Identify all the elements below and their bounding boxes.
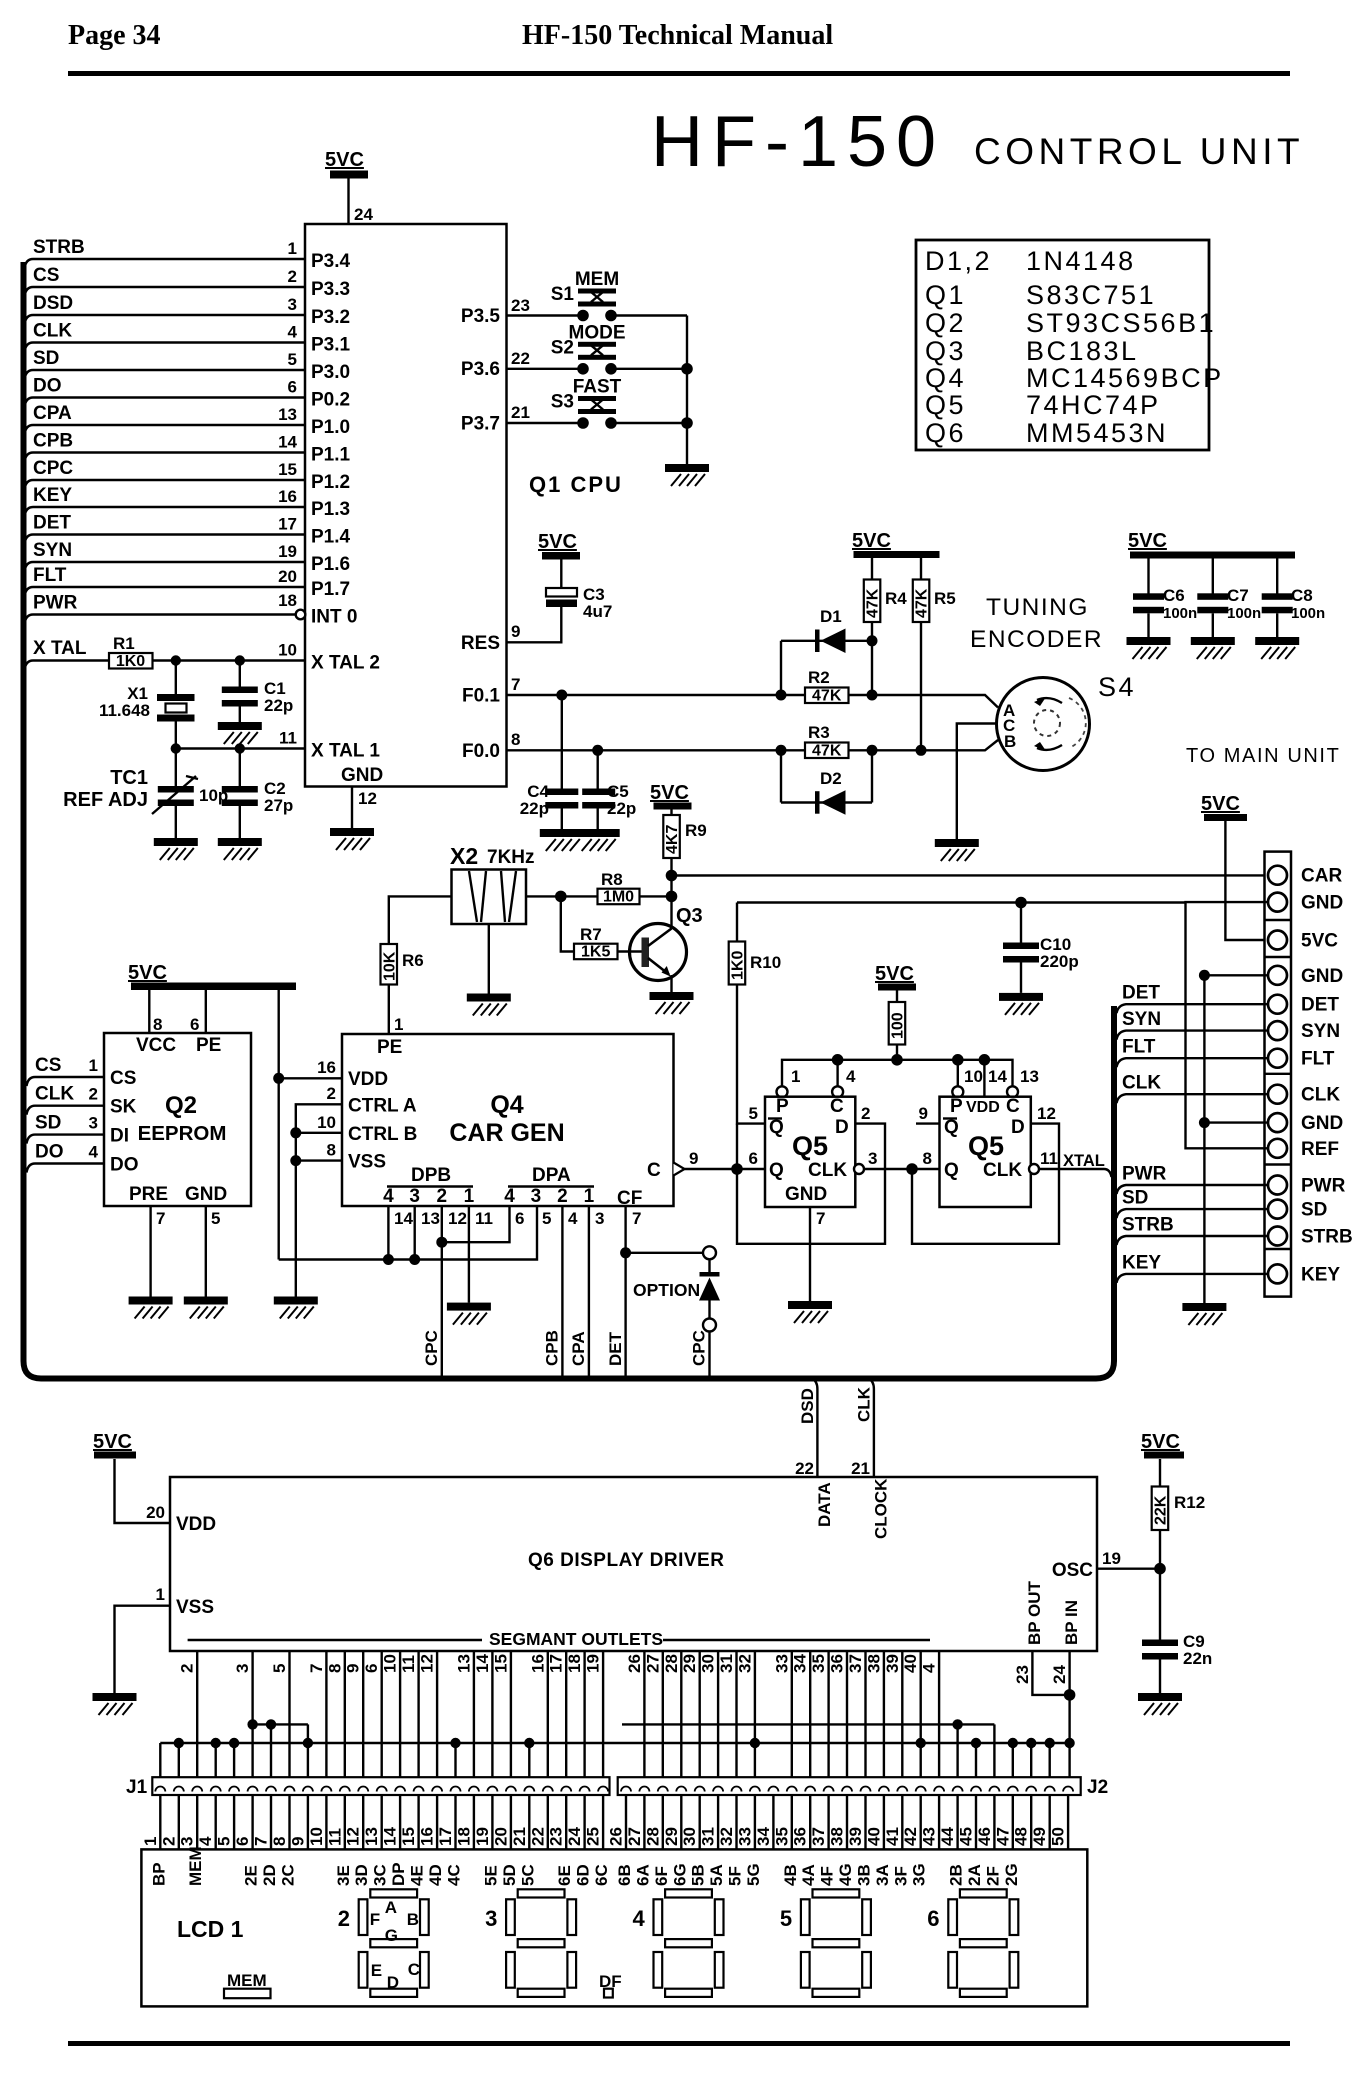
connector pin STRB [1268, 1227, 1287, 1246]
svg-text:GND: GND [341, 765, 383, 786]
svg-text:CLK: CLK [808, 1160, 847, 1181]
svg-text:4A: 4A [799, 1864, 818, 1886]
svg-text:Q4: Q4 [490, 1091, 523, 1119]
svg-text:26: 26 [625, 1654, 644, 1673]
svg-text:Q2: Q2 [925, 308, 966, 338]
svg-text:5: 5 [542, 1209, 551, 1228]
svg-text:P1.0: P1.0 [311, 417, 350, 438]
wire CPA [25, 425, 306, 434]
power symbol 5VC (Q5 rail via 100R) [875, 963, 916, 991]
ground (Q6 VSS) [93, 1693, 137, 1715]
svg-text:3: 3 [409, 1186, 420, 1207]
svg-text:S3: S3 [551, 392, 574, 413]
svg-text:30: 30 [680, 1827, 699, 1846]
svg-text:CPC: CPC [422, 1330, 441, 1366]
junction rail/pin4 [832, 1054, 844, 1066]
svg-text:VDD: VDD [348, 1069, 388, 1090]
capacitor C9 22n [1142, 1632, 1212, 1668]
svg-text:C: C [647, 1160, 661, 1181]
svg-text:38: 38 [828, 1827, 847, 1846]
wire pin12 to pin6 link [442, 1206, 510, 1242]
svg-text:20: 20 [278, 567, 297, 586]
svg-text:P0.2: P0.2 [311, 390, 350, 411]
svg-text:22: 22 [795, 1459, 814, 1478]
capacitor C1 22p [222, 679, 293, 715]
connector pin CAR [1268, 866, 1287, 885]
flip-flop Q5b 74HC74P [940, 1096, 1031, 1207]
svg-text:10: 10 [964, 1067, 983, 1086]
svg-text:100n: 100n [1227, 605, 1261, 622]
Q2 left signal labels [35, 1055, 74, 1163]
wire BP OUT pin 23 [1032, 1651, 1069, 1695]
svg-text:7: 7 [632, 1209, 641, 1228]
wire KEY from cable bus to connector [1117, 1274, 1268, 1283]
svg-text:2: 2 [159, 1837, 178, 1846]
svg-text:FLT: FLT [1122, 1037, 1156, 1058]
wire Q6 VSS pin 1 to ground [115, 1606, 171, 1693]
svg-text:P: P [776, 1096, 789, 1117]
connector J1 [126, 1777, 610, 1798]
CPU right pin numbers [511, 296, 530, 749]
svg-text:7: 7 [156, 1209, 165, 1228]
svg-text:1N4148: 1N4148 [1026, 246, 1136, 276]
svg-text:1: 1 [288, 239, 297, 258]
junction link bus [971, 1738, 981, 1748]
junction link bus [1045, 1738, 1055, 1748]
svg-text:11.648: 11.648 [99, 701, 150, 720]
svg-text:P1.6: P1.6 [311, 554, 350, 575]
svg-text:9: 9 [919, 1104, 928, 1123]
junction VSS [290, 1155, 301, 1166]
svg-text:TC1: TC1 [110, 767, 148, 789]
svg-text:41: 41 [883, 1827, 902, 1846]
ground (C9) [1138, 1693, 1182, 1715]
junction link bus [1008, 1738, 1018, 1748]
svg-text:17: 17 [436, 1827, 455, 1846]
wire R100 to Q5 supply rail [896, 1045, 898, 1060]
junction rail/pin10 [952, 1054, 964, 1066]
svg-text:22: 22 [528, 1827, 547, 1846]
connector pin GND [1268, 1113, 1287, 1132]
wire R4 to D1/R2 node [871, 622, 873, 695]
svg-text:5: 5 [211, 1209, 220, 1228]
svg-text:26: 26 [607, 1827, 626, 1846]
svg-text:4E: 4E [408, 1865, 427, 1886]
svg-text:29: 29 [680, 1654, 699, 1673]
svg-text:P: P [950, 1096, 963, 1117]
svg-text:43: 43 [920, 1827, 939, 1846]
svg-text:SYN: SYN [1122, 1009, 1161, 1030]
junction D1/F0.1 [776, 690, 787, 701]
svg-text:CS: CS [35, 1055, 61, 1076]
wire Q6 pin 10 to J pin 14 [399, 1651, 401, 1777]
LCD digit 6 seven-segment [927, 1889, 1018, 1997]
resistor R1 1K0 [109, 634, 153, 670]
svg-text:Q5: Q5 [968, 1131, 1004, 1161]
wire TC1 to ground [175, 806, 177, 838]
svg-text:SD: SD [35, 1113, 61, 1134]
junction D1/R4 [867, 635, 878, 646]
svg-text:REF: REF [1301, 1139, 1339, 1160]
LCD digit 4 seven-segment [633, 1889, 724, 1997]
wire X2 bottom to ground [488, 924, 490, 994]
wire CLK [25, 343, 306, 352]
wire OPTION to border / CPC [708, 1332, 710, 1379]
connector pin KEY [1268, 1264, 1287, 1283]
wire C10 to ground [1020, 963, 1022, 993]
svg-text:6F: 6F [652, 1866, 671, 1886]
svg-text:R5: R5 [934, 589, 956, 608]
svg-text:P3.4: P3.4 [311, 251, 351, 272]
wire Q6 pin 17 to J pin 23 [565, 1651, 567, 1777]
svg-text:38: 38 [864, 1654, 883, 1673]
svg-text:Q6: Q6 [925, 418, 966, 448]
svg-text:11: 11 [475, 1209, 493, 1228]
ground (C2) [218, 838, 262, 860]
svg-text:7: 7 [816, 1209, 825, 1228]
connector pin GND [1268, 893, 1287, 912]
svg-text:1K0: 1K0 [730, 951, 747, 980]
junction R9/CAR [666, 870, 678, 882]
svg-text:P3.6: P3.6 [461, 359, 500, 380]
svg-text:22p: 22p [607, 799, 636, 818]
svg-text:10: 10 [381, 1654, 400, 1673]
wire DPB2 pin 12 / CPC [441, 1206, 443, 1378]
op-amp: CPU block Q1 (S83C751) [305, 224, 507, 787]
svg-text:DET: DET [1301, 995, 1339, 1016]
svg-text:D2: D2 [820, 769, 842, 788]
wire Q6 pin 27 to J pin 28 [662, 1651, 664, 1777]
connector pin CLK [1268, 1085, 1287, 1104]
svg-text:DSD: DSD [33, 293, 73, 314]
wire stub to J pin 7 [270, 1724, 272, 1777]
svg-text:X TAL: X TAL [33, 638, 87, 659]
pin 1 circle [777, 1086, 788, 1097]
svg-text:13: 13 [454, 1654, 473, 1673]
svg-text:6: 6 [515, 1209, 524, 1228]
svg-text:3D: 3D [352, 1864, 371, 1886]
connector pin SD [1268, 1200, 1287, 1219]
wire P3.6 to S2 [507, 368, 584, 370]
svg-text:10K: 10K [381, 951, 398, 981]
junction R4 leg/F0.1 [867, 690, 878, 701]
wire SYN [25, 562, 306, 571]
wire 5VC to C8 [1276, 559, 1278, 594]
svg-text:45: 45 [957, 1827, 976, 1846]
svg-text:5: 5 [270, 1664, 289, 1673]
svg-text:8: 8 [511, 730, 520, 749]
svg-text:44: 44 [938, 1827, 957, 1846]
svg-text:5VC: 5VC [538, 531, 577, 553]
svg-text:CPC: CPC [33, 458, 73, 479]
OPTION link bottom circle [703, 1319, 716, 1332]
pin 13 circle [1007, 1086, 1018, 1097]
wire OSC pin 19 [1097, 1567, 1160, 1569]
svg-text:HF-150: HF-150 [651, 102, 945, 182]
wire C5 top [597, 750, 599, 788]
header rule [68, 71, 1290, 76]
wire R10 bottom to Q5a pin 5 [737, 985, 765, 1124]
svg-text:2C: 2C [279, 1864, 298, 1886]
svg-text:6A: 6A [633, 1864, 652, 1886]
svg-text:13: 13 [421, 1209, 440, 1228]
svg-text:8: 8 [153, 1015, 162, 1034]
wire D1 left leg down to F0.1 [780, 641, 782, 695]
wire Q6 pin 12 to J pin 16 [436, 1651, 438, 1777]
svg-text:8: 8 [923, 1149, 932, 1168]
svg-text:36: 36 [791, 1827, 810, 1846]
main schematic border / bus [24, 262, 1115, 1379]
wire link stub to J pin 21 [528, 1743, 530, 1777]
svg-text:12: 12 [358, 789, 377, 808]
svg-text:DSD: DSD [798, 1388, 817, 1424]
junction link bus [229, 1738, 239, 1748]
wire R7 branch [561, 896, 574, 951]
ground (C10) [999, 993, 1043, 1015]
svg-text:Q3: Q3 [676, 905, 703, 927]
svg-text:EEPROM: EEPROM [138, 1122, 227, 1145]
junction upper link/pin7 [266, 1719, 276, 1729]
wire bus end to J1 pin 1 [159, 1743, 161, 1777]
wire DSD [25, 315, 306, 324]
ground (C7) [1191, 637, 1235, 659]
wire DPA2 pin 4 / CPB [561, 1206, 563, 1378]
wire LCD backplane link bus [160, 1742, 1069, 1744]
svg-text:D: D [387, 1973, 399, 1992]
svg-text:B: B [1004, 732, 1016, 751]
pushbutton S2 MODE [551, 322, 626, 374]
wire upper link (left) [253, 1723, 308, 1725]
svg-text:2: 2 [178, 1664, 197, 1673]
wire Q5a pin3 to Q5b pin8 [864, 1168, 940, 1170]
connector pin REF [1268, 1139, 1287, 1158]
svg-text:1K0: 1K0 [116, 653, 145, 670]
ground (C1) [218, 722, 262, 744]
ground (Q3) [650, 992, 694, 1014]
wire STRB [25, 259, 306, 268]
svg-text:4: 4 [568, 1209, 578, 1228]
crystal X1 11.648 [99, 684, 195, 722]
diode D2 1N4148 [781, 769, 872, 815]
junction lower bus/pin9 [303, 1738, 313, 1748]
resistor R6 10K [381, 944, 424, 985]
svg-text:J1: J1 [126, 1777, 148, 1798]
svg-text:47K: 47K [812, 688, 842, 705]
wire FLT [25, 587, 306, 596]
svg-text:OPTION: OPTION [633, 1280, 700, 1300]
svg-text:REF ADJ: REF ADJ [63, 789, 148, 811]
wire buttons common to ground [686, 316, 688, 465]
connector pin 5VC [1268, 931, 1287, 950]
wire X2 left to R6 [389, 896, 452, 944]
svg-text:11: 11 [325, 1828, 344, 1846]
svg-text:13: 13 [362, 1827, 381, 1846]
svg-text:4F: 4F [818, 1866, 837, 1886]
wire GND pin 9 [1204, 1121, 1267, 1123]
svg-text:12: 12 [344, 1827, 363, 1846]
wire Q5a D feedback [737, 1124, 885, 1244]
wire stub to J pin 9 [307, 1724, 309, 1777]
svg-text:CPC: CPC [690, 1330, 709, 1366]
svg-text:21: 21 [510, 1827, 529, 1846]
svg-text:P3.7: P3.7 [461, 414, 500, 435]
svg-text:DO: DO [33, 376, 62, 397]
wire PWR from cable bus to connector [1117, 1185, 1268, 1194]
wire DSD to Q6 DATA pin 22 [812, 1379, 817, 1477]
svg-text:B: B [407, 1910, 419, 1929]
wire X1 bottom [175, 722, 177, 749]
svg-text:18: 18 [454, 1827, 473, 1846]
svg-text:P3.2: P3.2 [311, 307, 350, 328]
svg-text:C: C [1006, 1096, 1020, 1117]
svg-text:2B: 2B [947, 1864, 966, 1886]
svg-text:19: 19 [584, 1654, 603, 1673]
junction link bus [524, 1738, 534, 1748]
svg-text:9: 9 [288, 1837, 307, 1846]
svg-text:RES: RES [461, 633, 500, 654]
wire DO [25, 398, 306, 407]
wire PWR [25, 615, 297, 624]
svg-text:LCD 1: LCD 1 [177, 1916, 244, 1942]
svg-text:X TAL 1: X TAL 1 [311, 741, 380, 762]
svg-text:22: 22 [511, 349, 530, 368]
junction pin12 link [436, 1237, 447, 1248]
svg-text:15: 15 [491, 1654, 510, 1673]
svg-text:47K: 47K [914, 588, 931, 618]
wire P3.5 to S1 [507, 314, 584, 316]
svg-text:5D: 5D [500, 1864, 519, 1886]
connector J to main unit body [1265, 852, 1292, 1297]
svg-text:14: 14 [278, 433, 297, 452]
CPU left pin name labels [311, 251, 383, 786]
svg-text:R6: R6 [402, 951, 424, 970]
svg-text:P3.1: P3.1 [311, 335, 351, 356]
wire C8 to ground [1276, 613, 1278, 637]
svg-text:2: 2 [338, 1906, 350, 1931]
svg-text:15: 15 [399, 1827, 418, 1846]
junction OSC/R12/C9 [1154, 1563, 1166, 1575]
junction R10/pin6 [731, 1163, 743, 1175]
svg-text:11: 11 [1040, 1149, 1058, 1168]
connector section divider [1265, 1248, 1292, 1250]
svg-text:CLK: CLK [1122, 1073, 1161, 1094]
svg-text:3B: 3B [855, 1864, 874, 1886]
junction TC1/XTAL1 [171, 743, 181, 753]
svg-text:46: 46 [975, 1827, 994, 1846]
Q5a CLK inverting bubble pin 3 [854, 1164, 864, 1174]
svg-text:Page 34: Page 34 [68, 20, 161, 51]
wire R7 to Q3 base [618, 950, 645, 952]
svg-text:SYN: SYN [33, 540, 72, 561]
wire 5VC tie rail [279, 1206, 537, 1260]
svg-text:Q6 DISPLAY DRIVER: Q6 DISPLAY DRIVER [528, 1550, 724, 1571]
svg-text:3: 3 [89, 1114, 98, 1133]
wire C6 to ground [1147, 613, 1149, 637]
capacitor C8 100n [1262, 586, 1326, 622]
pushbutton S1 MEM [551, 269, 619, 321]
svg-text:32: 32 [717, 1827, 736, 1846]
svg-text:GND: GND [1301, 966, 1343, 987]
wire Q6 pin 40 to J pin 42 [920, 1651, 922, 1777]
svg-text:11: 11 [279, 729, 297, 748]
svg-text:2: 2 [89, 1085, 98, 1104]
svg-text:19: 19 [278, 542, 297, 561]
svg-text:MC14569BCP: MC14569BCP [1026, 363, 1224, 393]
wire stub to J pin 46 [993, 1724, 995, 1777]
svg-text:27: 27 [625, 1827, 644, 1846]
wire CS (Q2 pin 1) [27, 1077, 105, 1086]
svg-text:DET: DET [1122, 983, 1160, 1004]
svg-text:2: 2 [861, 1104, 870, 1123]
junction link bus [1026, 1738, 1036, 1748]
svg-text:CAR GEN: CAR GEN [449, 1119, 564, 1147]
svg-text:SD: SD [33, 348, 59, 369]
svg-text:5: 5 [215, 1837, 234, 1846]
svg-text:CAR: CAR [1301, 866, 1342, 887]
svg-text:220p: 220p [1040, 952, 1079, 971]
wire Q6 pin 8 to J pin 11 [344, 1651, 346, 1777]
wire 5VC rail down to Q4 VDD [278, 990, 280, 1260]
junction CF/OPTION [620, 1247, 631, 1258]
svg-text:100n: 100n [1291, 605, 1325, 622]
connector pin SYN [1268, 1021, 1287, 1040]
wire Q6 pin 14 to J pin 19 [491, 1651, 493, 1777]
svg-text:STRB: STRB [33, 237, 85, 258]
wire X TAL input [25, 661, 110, 670]
connector section divider [1265, 919, 1292, 921]
svg-text:BP OUT: BP OUT [1025, 1580, 1044, 1645]
svg-text:40: 40 [901, 1654, 920, 1673]
wire C2 to ground [239, 806, 241, 838]
svg-text:P1.7: P1.7 [311, 579, 350, 600]
wire Q6 pin 30 to J pin 31 [717, 1651, 719, 1777]
svg-text:3: 3 [178, 1837, 197, 1846]
svg-text:33: 33 [772, 1654, 791, 1673]
wire ground vertical [1203, 975, 1205, 1303]
svg-text:X2: X2 [450, 843, 478, 869]
OPTION link top circle [703, 1246, 716, 1259]
wire link stub to J pin 17 [454, 1743, 456, 1777]
svg-text:4: 4 [288, 323, 298, 342]
resistor 100 [889, 1002, 907, 1045]
wire SD (Q2 pin 3) [27, 1135, 105, 1144]
ground (Q4 control) [274, 1297, 318, 1319]
svg-text:CF: CF [617, 1188, 642, 1209]
svg-text:22K: 22K [1153, 1495, 1170, 1525]
power symbol 5VC (C6 C7 C8 rail) [1128, 530, 1295, 559]
wire DET from cable bus to connector [1117, 1004, 1268, 1013]
svg-text:2E: 2E [242, 1865, 261, 1886]
svg-text:CS: CS [33, 265, 59, 286]
svg-text:PWR: PWR [1301, 1176, 1346, 1197]
svg-text:27: 27 [643, 1654, 662, 1673]
svg-text:BP: BP [149, 1862, 168, 1886]
svg-text:F0.1: F0.1 [462, 686, 500, 707]
parts list table [916, 240, 1224, 450]
wire C4 top [561, 695, 563, 789]
svg-text:14: 14 [381, 1827, 400, 1846]
svg-text:BC183L: BC183L [1026, 336, 1139, 366]
svg-text:9: 9 [689, 1149, 698, 1168]
svg-text:INT 0: INT 0 [311, 607, 357, 628]
svg-text:100n: 100n [1163, 605, 1197, 622]
capacitor C7 100n [1197, 586, 1261, 622]
wire C1 to ground [239, 707, 241, 723]
svg-text:8: 8 [325, 1664, 344, 1673]
svg-text:9: 9 [511, 622, 520, 641]
svg-text:7KHz: 7KHz [487, 847, 535, 868]
svg-text:Q: Q [944, 1117, 959, 1138]
